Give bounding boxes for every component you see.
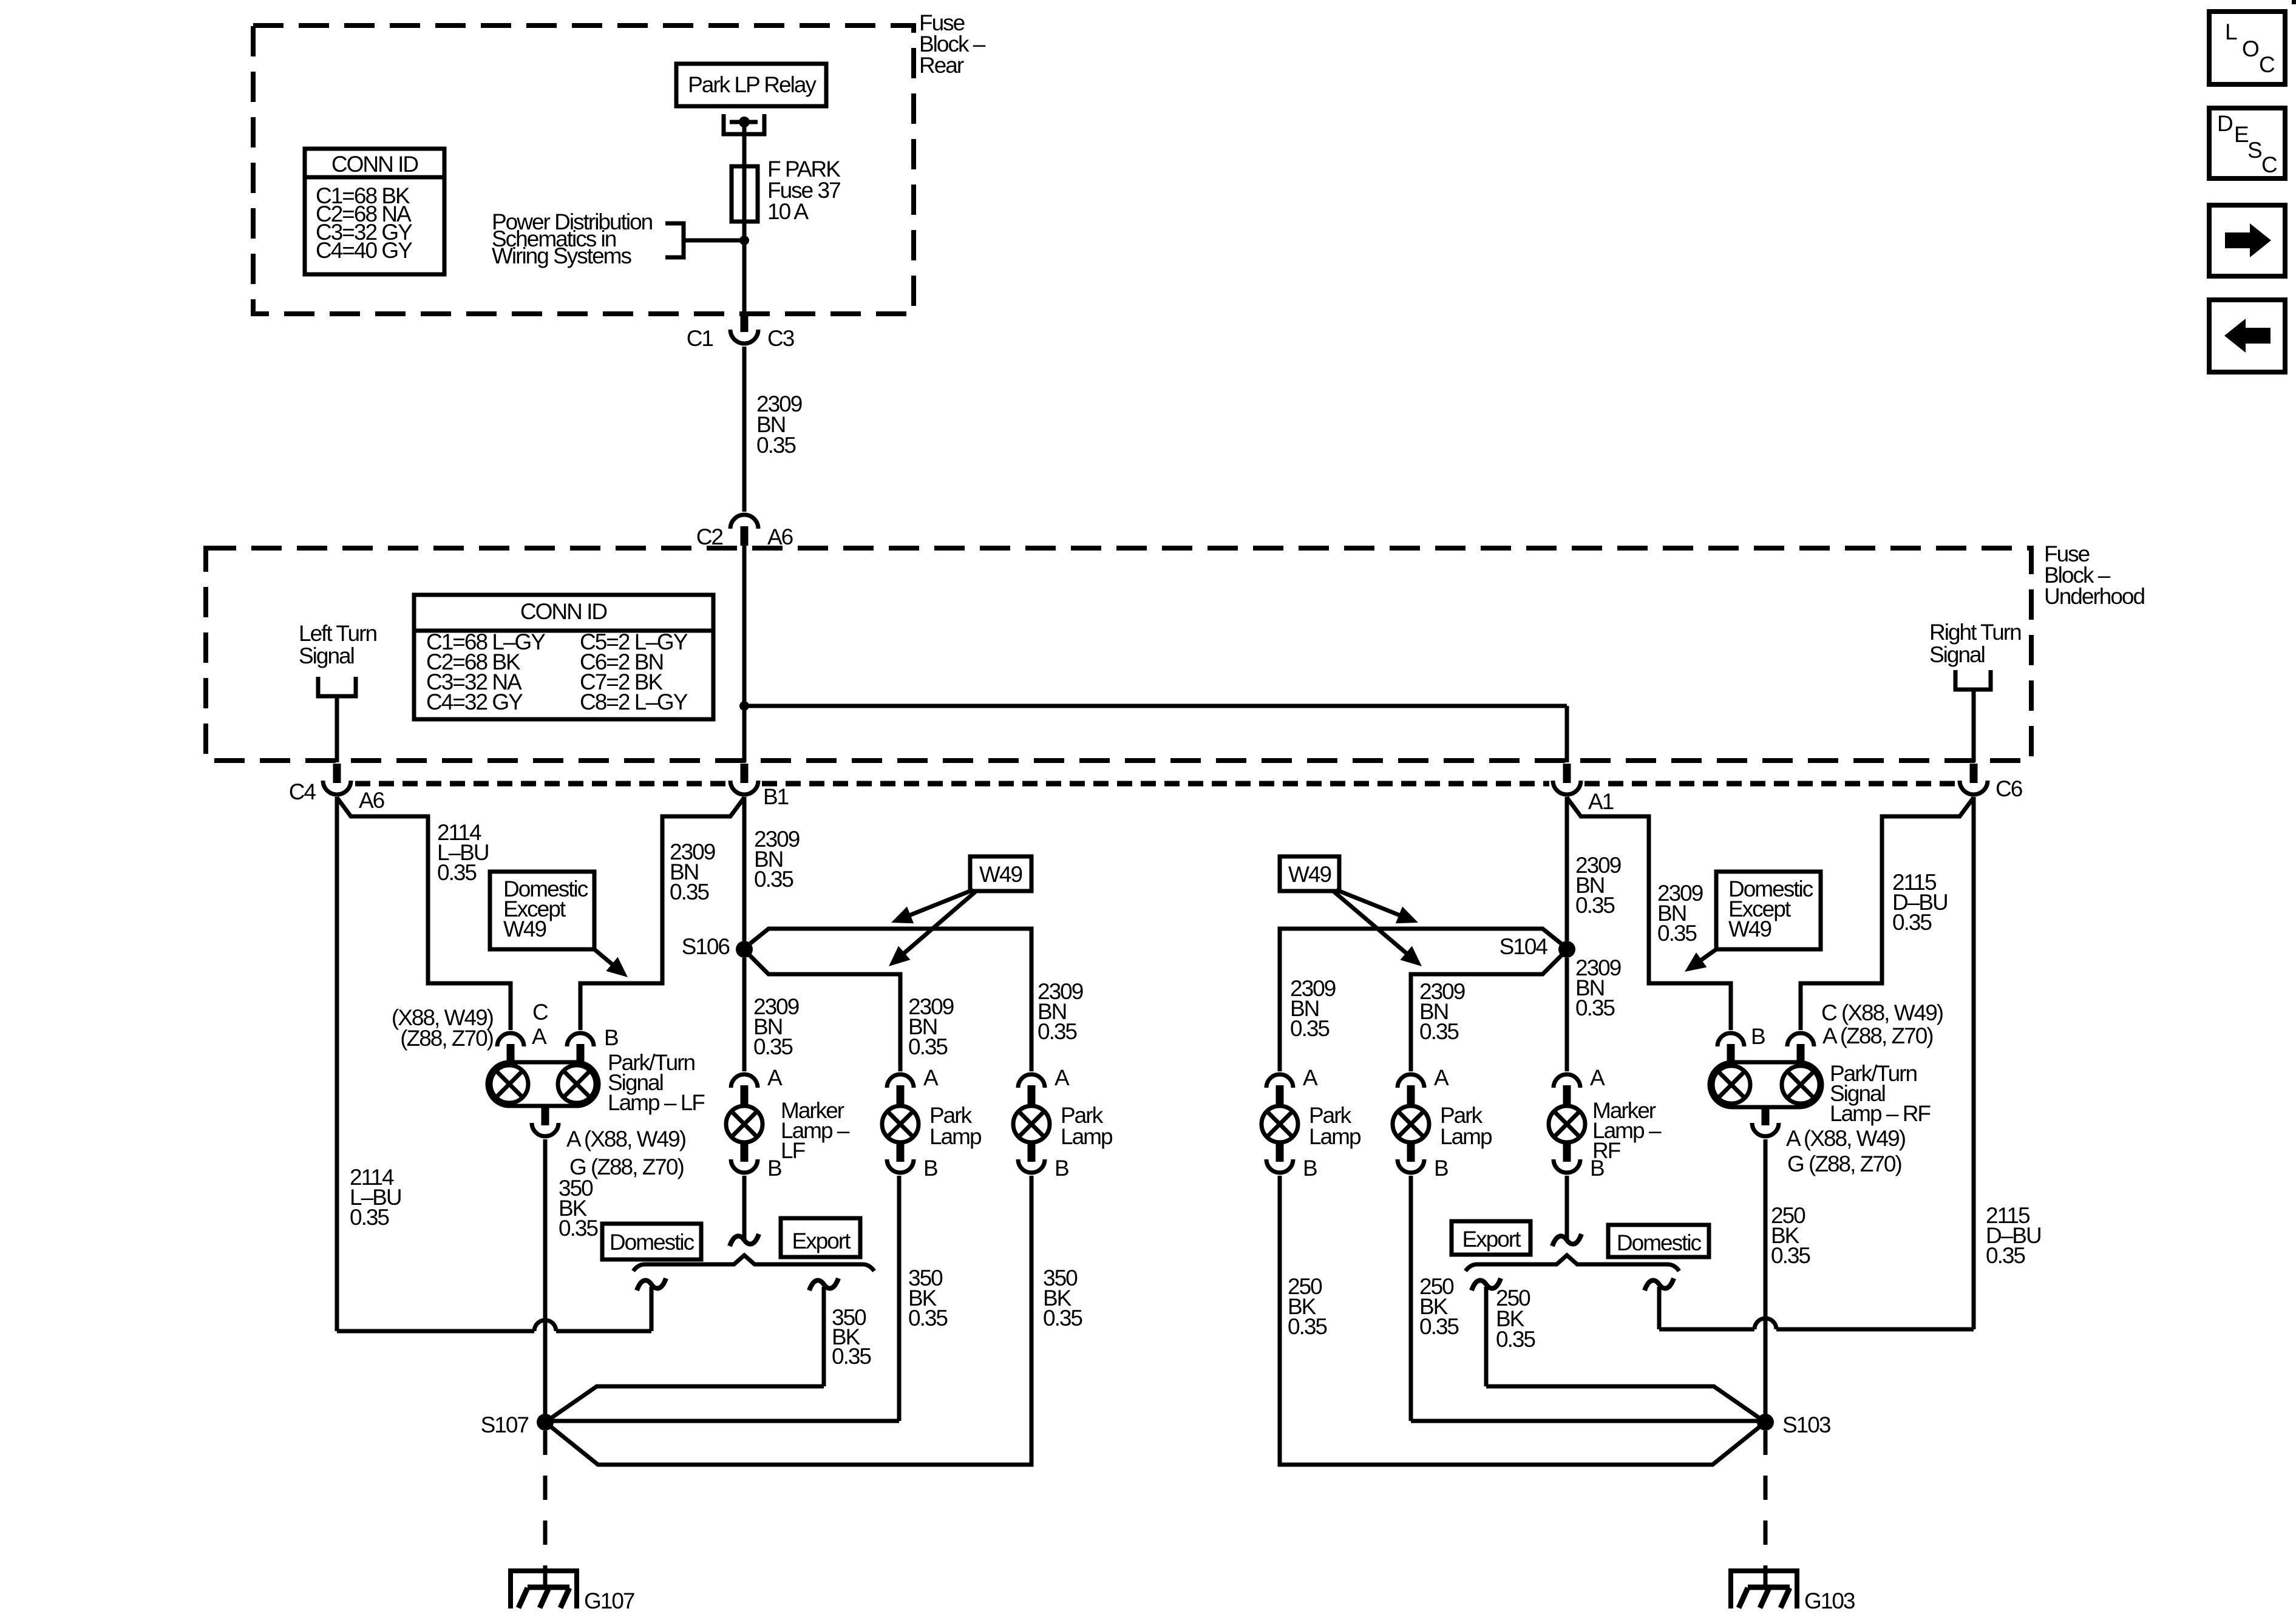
svg-text:G107: G107 (584, 1588, 634, 1613)
svg-text:0.35: 0.35 (1575, 995, 1615, 1020)
svg-text:L: L (2225, 19, 2237, 44)
svg-text:C: C (532, 1000, 548, 1025)
svg-text:Lamp – LF: Lamp – LF (608, 1090, 705, 1115)
svg-text:S103: S103 (1782, 1412, 1830, 1437)
svg-text:0.35: 0.35 (908, 1306, 948, 1331)
svg-text:0.35: 0.35 (1038, 1019, 1077, 1044)
svg-text:(Z88, Z70): (Z88, Z70) (400, 1026, 493, 1051)
svg-text:0.35: 0.35 (559, 1216, 598, 1241)
svg-text:LF: LF (781, 1138, 806, 1163)
svg-text:Export: Export (792, 1229, 852, 1253)
svg-text:Signal: Signal (299, 643, 354, 668)
svg-text:Right Turn: Right Turn (1929, 620, 2021, 645)
svg-text:D: D (2217, 111, 2232, 136)
svg-text:C8=2 L–GY: C8=2 L–GY (580, 690, 688, 714)
svg-text:C2: C2 (696, 524, 723, 549)
svg-text:O: O (2242, 36, 2259, 61)
svg-text:B1: B1 (763, 784, 789, 809)
svg-text:CONN ID: CONN ID (520, 599, 607, 624)
svg-text:W49: W49 (1728, 917, 1771, 941)
svg-text:E: E (2234, 122, 2249, 147)
svg-text:B: B (1590, 1156, 1604, 1181)
svg-text:A (Z88, Z70): A (Z88, Z70) (1822, 1023, 1933, 1048)
svg-text:G103: G103 (1804, 1588, 1855, 1613)
svg-text:Lamp – RF: Lamp – RF (1830, 1101, 1931, 1126)
svg-text:0.35: 0.35 (753, 1034, 793, 1059)
svg-text:Rear: Rear (919, 53, 964, 78)
svg-text:A: A (1303, 1065, 1318, 1090)
svg-text:A6: A6 (359, 788, 384, 813)
svg-text:A: A (1434, 1065, 1449, 1090)
svg-text:Left Turn: Left Turn (299, 621, 376, 646)
svg-text:Lamp: Lamp (1309, 1124, 1361, 1149)
svg-text:B: B (767, 1156, 781, 1181)
svg-text:0.35: 0.35 (1288, 1314, 1327, 1339)
svg-text:0.35: 0.35 (1986, 1243, 2025, 1268)
svg-text:A (X88, W49): A (X88, W49) (1786, 1126, 1906, 1151)
svg-text:C4=32 GY: C4=32 GY (426, 690, 523, 714)
svg-text:0.35: 0.35 (1043, 1306, 1082, 1331)
svg-text:C: C (2261, 152, 2277, 177)
svg-text:C3: C3 (767, 326, 794, 351)
svg-text:C (X88, W49): C (X88, W49) (1821, 1000, 1943, 1025)
svg-text:0.35: 0.35 (1892, 910, 1932, 935)
svg-text:W49: W49 (503, 917, 546, 941)
svg-text:10 A: 10 A (767, 199, 809, 224)
svg-text:S: S (2247, 138, 2261, 163)
svg-text:C: C (2259, 52, 2275, 77)
svg-text:Lamp: Lamp (1440, 1124, 1492, 1149)
svg-text:Lamp: Lamp (929, 1124, 982, 1149)
svg-text:0.35: 0.35 (754, 867, 793, 892)
svg-text:0.35: 0.35 (1657, 921, 1697, 946)
svg-text:Park LP Relay: Park LP Relay (688, 72, 817, 97)
svg-text:CONN ID: CONN ID (331, 152, 418, 177)
svg-text:A6: A6 (767, 524, 793, 549)
svg-text:A: A (532, 1024, 547, 1049)
svg-text:C1: C1 (687, 326, 713, 351)
svg-text:Domestic: Domestic (1617, 1230, 1702, 1255)
svg-text:0.35: 0.35 (1290, 1016, 1330, 1041)
svg-text:Underhood: Underhood (2044, 584, 2145, 609)
svg-text:C4=40 GY: C4=40 GY (316, 238, 412, 263)
svg-text:G (Z88, Z70): G (Z88, Z70) (1787, 1151, 1901, 1176)
svg-text:Signal: Signal (1929, 642, 1985, 667)
svg-text:W49: W49 (1288, 862, 1331, 887)
svg-text:0.35: 0.35 (908, 1034, 948, 1059)
svg-text:A: A (923, 1065, 939, 1090)
svg-text:0.35: 0.35 (1575, 893, 1615, 918)
svg-text:Wiring Systems: Wiring Systems (492, 243, 631, 268)
svg-text:A (X88, W49): A (X88, W49) (566, 1127, 686, 1151)
svg-text:B: B (604, 1025, 618, 1050)
svg-text:0.35: 0.35 (832, 1344, 871, 1369)
svg-text:B: B (1303, 1156, 1317, 1181)
svg-text:0.35: 0.35 (350, 1205, 389, 1230)
svg-text:Domestic: Domestic (610, 1230, 695, 1255)
svg-text:Lamp: Lamp (1061, 1124, 1113, 1149)
svg-text:0.35: 0.35 (1771, 1243, 1810, 1268)
svg-text:A1: A1 (1588, 789, 1614, 814)
svg-text:A: A (767, 1065, 783, 1090)
svg-text:0.35: 0.35 (756, 433, 796, 458)
svg-text:S104: S104 (1500, 934, 1548, 959)
svg-text:C6: C6 (1995, 776, 2022, 801)
svg-text:S107: S107 (481, 1412, 529, 1437)
svg-text:0.35: 0.35 (1419, 1314, 1459, 1339)
svg-text:B: B (1434, 1156, 1448, 1181)
svg-text:0.35: 0.35 (1419, 1019, 1459, 1044)
svg-text:C4: C4 (289, 779, 316, 804)
svg-text:B: B (1055, 1156, 1068, 1181)
svg-text:B: B (1751, 1024, 1765, 1049)
svg-text:W49: W49 (979, 862, 1022, 887)
svg-text:S106: S106 (682, 934, 730, 959)
svg-text:0.35: 0.35 (670, 880, 709, 904)
svg-text:Export: Export (1462, 1227, 1522, 1252)
svg-text:B: B (923, 1156, 937, 1181)
svg-text:0.35: 0.35 (1496, 1327, 1535, 1352)
svg-text:0.35: 0.35 (437, 860, 477, 885)
svg-text:A: A (1590, 1065, 1605, 1090)
svg-text:A: A (1055, 1065, 1070, 1090)
